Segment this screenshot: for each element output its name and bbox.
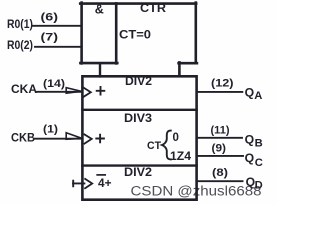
- counter CTR common block outline: [80, 3, 197, 77]
- svg-text:(9): (9): [212, 143, 227, 155]
- svg-text:CTR: CTR: [140, 1, 166, 15]
- svg-text:C: C: [255, 157, 263, 169]
- divider line DIV2/DIV3: [82, 109, 196, 111]
- svg-text:(7): (7): [41, 32, 59, 44]
- wire CKB: [35, 138, 82, 140]
- svg-text:4+: 4+: [98, 178, 112, 190]
- svg-text:(6): (6): [41, 11, 59, 23]
- wire QB output: [197, 137, 242, 139]
- svg-text:B: B: [255, 138, 263, 150]
- svg-text:0: 0: [173, 132, 179, 144]
- svg-text:(14): (14): [43, 78, 65, 90]
- svg-text:1Z4: 1Z4: [170, 151, 192, 163]
- svg-text:CT: CT: [147, 140, 161, 152]
- svg-text:(12): (12): [211, 78, 234, 90]
- gate &amp; box (reset AND): [80, 3, 117, 64]
- svg-text:CT=0: CT=0: [119, 27, 151, 41]
- svg-text:A: A: [254, 90, 262, 102]
- wire QD output: [198, 180, 243, 182]
- divider line DIV3/DIV2: [82, 164, 196, 166]
- internal Z4 stub into bottom DIV2: [73, 181, 84, 187]
- dynamic input indicator CKA: [84, 88, 91, 97]
- wire QC output: [197, 155, 243, 157]
- plus polarity CKA: [97, 87, 105, 95]
- svg-text:Q: Q: [245, 85, 254, 99]
- brace for CT outputs: [162, 131, 171, 160]
- divider array main box: [82, 76, 196, 199]
- svg-text:Q: Q: [245, 151, 254, 165]
- svg-text:R0(2): R0(2): [7, 40, 33, 52]
- wire R0(2) to &amp; box: [35, 46, 82, 48]
- wire CKA: [37, 91, 82, 93]
- plus polarity CKB: [96, 135, 104, 143]
- polarity wedge CKA input: [66, 88, 81, 94]
- dynamic input indicator CKB: [84, 134, 91, 143]
- svg-text:DIV2: DIV2: [125, 74, 152, 88]
- svg-text:&: &: [95, 3, 104, 17]
- wire stub from &amp; box down to DIV2: [99, 63, 101, 76]
- dynamic input indicator bottom DIV2: [85, 179, 92, 188]
- svg-text:R0(1): R0(1): [7, 19, 33, 31]
- polarity wedge CKB input: [66, 133, 82, 140]
- svg-text:CKB: CKB: [11, 131, 35, 145]
- svg-text:CSDN @zhusl6688: CSDN @zhusl6688: [131, 184, 262, 199]
- svg-text:(11): (11): [211, 125, 230, 137]
- svg-text:DIV3: DIV3: [124, 111, 152, 125]
- svg-text:CKA: CKA: [11, 82, 37, 96]
- svg-text:(1): (1): [43, 124, 58, 136]
- svg-text:Q: Q: [245, 133, 254, 147]
- svg-text:DIV2: DIV2: [124, 165, 152, 179]
- svg-text:(8): (8): [212, 167, 228, 179]
- wire R0(1) to &amp; box: [33, 25, 82, 27]
- wire QA output: [197, 91, 242, 93]
- overbar on 4 (bottom DIV2 input label): [97, 174, 105, 176]
